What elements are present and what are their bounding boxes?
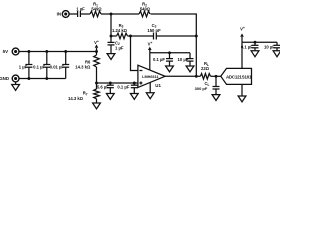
wire op-amp output <box>165 75 200 77</box>
svg-text:150 pF: 150 pF <box>147 28 161 33</box>
op-amp supply rail <box>150 52 190 54</box>
svg-text:549Ω: 549Ω <box>91 7 102 12</box>
svg-text:1.24 kΩ: 1.24 kΩ <box>112 28 128 33</box>
svg-text:1 µF: 1 µF <box>76 6 85 11</box>
node at inverting input tap <box>129 35 132 38</box>
svg-text:V+: V+ <box>240 26 245 31</box>
ground op-amp 0.1uF <box>166 66 174 72</box>
ADC V+ pin stub <box>241 42 243 68</box>
node bypass 0.01uF top <box>64 50 67 53</box>
node ADC 0.1uF <box>254 41 257 44</box>
svg-text:1 µF: 1 µF <box>19 64 28 69</box>
capacitor CL 300pF <box>213 76 220 94</box>
pin plus tick <box>139 82 142 85</box>
svg-text:22Ω: 22Ω <box>201 66 210 71</box>
ground C2 <box>107 54 115 60</box>
node output feedback <box>195 75 198 78</box>
capacitor C3 150pF <box>154 33 157 40</box>
node GND rail 0.1uF <box>45 77 48 80</box>
resistor R7 14.3k <box>94 89 100 99</box>
node GND rail 1uF <box>27 77 30 80</box>
ground op-amp 10uF <box>186 66 194 72</box>
node bypass 0.1uF top <box>45 50 48 53</box>
wire IN to C1 <box>69 13 77 15</box>
svg-text:0.1 µF: 0.1 µF <box>241 44 253 49</box>
svg-text:U1: U1 <box>155 83 161 88</box>
wire C2 to ground <box>110 45 112 54</box>
svg-text:LMH6611: LMH6611 <box>142 75 158 79</box>
wire GND rail <box>19 78 66 80</box>
svg-text:V+: V+ <box>148 41 153 46</box>
wire to R3 <box>111 35 117 37</box>
node bias cap 5.6uF <box>109 82 112 85</box>
svg-text:0.01 µF: 0.01 µF <box>50 64 65 69</box>
wire C2 stub <box>110 36 112 42</box>
ADC ground stub <box>241 84 243 96</box>
capacitor bypass 0.1uF <box>43 52 50 79</box>
node on R3 wire <box>110 35 113 38</box>
svg-text:1 µF: 1 µF <box>115 46 124 51</box>
ADC U2 ADC121S101 <box>221 68 252 84</box>
net V+ rail arrow <box>95 44 99 51</box>
svg-text:0.1 µF: 0.1 µF <box>33 64 45 69</box>
wire C3 to right vertical <box>157 35 197 37</box>
wire bias to +input <box>97 82 138 84</box>
wire node A down to R3 wire <box>110 14 112 36</box>
resistor R2 549 <box>139 11 150 17</box>
capacitor ADC 0.1uF <box>252 42 259 51</box>
capacitor op-amp 10uF <box>187 53 194 66</box>
op-amp U1 LMH6611 <box>138 65 165 87</box>
svg-text:14.3 kΩ: 14.3 kΩ <box>75 64 91 69</box>
wire to R6 <box>96 52 98 56</box>
svg-text:IN: IN <box>57 12 61 17</box>
wire inverting input <box>131 36 138 71</box>
terminal GND <box>12 75 19 82</box>
ground op-amp <box>146 93 154 99</box>
node bypass 1uF top <box>27 50 30 53</box>
wire R3 to C3 <box>128 35 154 37</box>
ground ADC 10uF <box>273 51 281 57</box>
wire R7 to ground <box>96 99 98 103</box>
capacitor bias 5.6uF <box>107 83 114 94</box>
ground GND terminal <box>12 85 20 91</box>
wire right vertical to output <box>195 36 197 76</box>
capacitor ADC 10uF <box>274 42 281 51</box>
node V+ rail <box>95 50 98 53</box>
wire R6 to node <box>96 67 98 89</box>
net V+ op-amp arrow <box>148 47 152 53</box>
node bias divider <box>95 82 98 85</box>
ground bias 5.6uF <box>106 94 114 100</box>
pin minus tick <box>139 70 142 72</box>
resistor R1 549 <box>90 11 101 17</box>
resistor R3 1.24k <box>117 33 128 39</box>
node CL <box>215 75 218 78</box>
svg-text:GND: GND <box>0 76 9 81</box>
svg-text:ADC121S101: ADC121S101 <box>226 74 252 79</box>
ground bias 0.1uF <box>130 94 138 100</box>
capacitor bias 0.1uF <box>131 83 138 94</box>
terminal 5V <box>12 48 19 55</box>
resistor R6 14.3k <box>94 55 100 67</box>
svg-text:0.1 µF: 0.1 µF <box>117 84 129 89</box>
terminal IN <box>62 11 69 18</box>
svg-text:549Ω: 549Ω <box>140 7 151 12</box>
capacitor C2 1uF <box>108 42 115 45</box>
op-amp V+ pin stub <box>149 53 151 70</box>
svg-text:V+: V+ <box>94 40 99 45</box>
capacitor op-amp 0.1uF <box>166 53 173 66</box>
svg-text:300 pF: 300 pF <box>195 86 208 91</box>
svg-text:0.1 µF: 0.1 µF <box>153 57 165 62</box>
op-amp V- pin stub <box>149 82 151 92</box>
node feedback right <box>195 35 198 38</box>
ground ADC 0.1uF <box>251 51 259 57</box>
wire R2 to right feedback vertical <box>151 14 197 36</box>
wire RL to ADC <box>211 75 221 77</box>
ground R7 <box>93 103 101 109</box>
ground CL <box>212 95 220 101</box>
svg-text:5.6 µF: 5.6 µF <box>97 84 109 89</box>
wire 5V rail <box>19 51 97 53</box>
wire GND terminal stub <box>15 82 17 85</box>
resistor RL 22 <box>200 74 210 80</box>
node op-amp 0.1uF <box>168 51 171 54</box>
svg-text:5V: 5V <box>3 49 8 54</box>
capacitor bypass 1uF <box>25 52 32 79</box>
node bias cap 0.1uF <box>133 82 136 85</box>
svg-text:14.3 kΩ: 14.3 kΩ <box>68 96 84 101</box>
node at R1/R2/C2 junction <box>110 13 113 16</box>
wire R1 to R2 <box>101 13 139 15</box>
wire C1 to R1 <box>81 13 90 15</box>
svg-text:10 µF: 10 µF <box>264 44 275 49</box>
svg-text:R7: R7 <box>83 91 88 97</box>
ADC supply rail <box>242 41 277 43</box>
ground ADC <box>238 96 246 102</box>
capacitor bypass 0.01uF <box>62 52 69 79</box>
capacitor C1 1uF <box>78 11 81 17</box>
net V+ ADC arrow <box>240 33 244 42</box>
svg-text:10 µF: 10 µF <box>178 57 189 62</box>
